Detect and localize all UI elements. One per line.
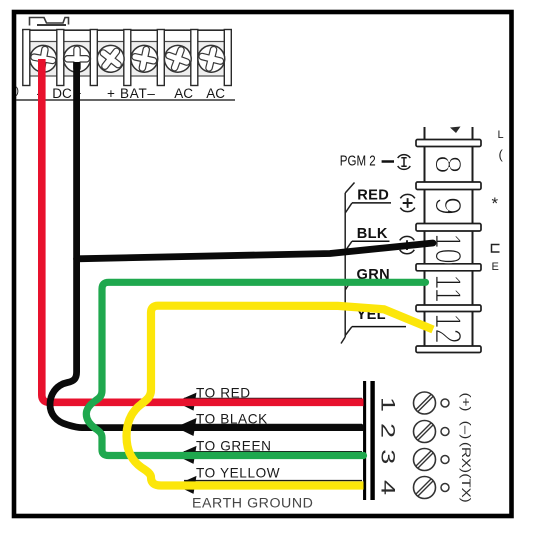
divider bars <box>416 140 481 353</box>
arrow TO BLACK <box>176 418 197 436</box>
svg-text:AC: AC <box>206 86 225 101</box>
svg-text:TO YELLOW: TO YELLOW <box>196 465 280 480</box>
svg-text:E: E <box>492 261 499 273</box>
svg-text:BLK: BLK <box>357 226 388 242</box>
underline TO RED <box>184 397 362 399</box>
right terminal strip <box>416 127 481 353</box>
bottom row labels <box>192 385 313 511</box>
arrowheads bottom rows (under wires) <box>176 393 197 494</box>
separator bars <box>23 30 232 86</box>
rotated pin numbers 1-4 <box>377 397 398 495</box>
arrow TO RED <box>176 393 197 411</box>
screw 2 <box>64 45 91 72</box>
wire hole 4 <box>441 484 449 492</box>
label PGM 2 <box>340 152 411 170</box>
wire red <box>42 59 364 402</box>
wire hole 1 <box>441 399 449 407</box>
svg-text:9: 9 <box>427 197 469 216</box>
svg-text:(TX): (TX) <box>459 473 472 502</box>
label BLK <box>352 226 414 254</box>
wire black tee to terminal 10 <box>77 243 433 259</box>
strip rails <box>424 127 426 350</box>
clamp plates <box>30 42 225 77</box>
svg-text:TO GREEN: TO GREEN <box>196 438 272 453</box>
underline TO YELLOW <box>184 480 362 482</box>
svg-text:(+): (+) <box>459 393 472 412</box>
glyph bracket <box>492 245 500 253</box>
keypad screws <box>414 392 450 499</box>
PGM2 screw icon <box>398 155 411 170</box>
svg-text:11: 11 <box>428 274 469 302</box>
terminal number 7 (partial fragment) <box>450 127 461 134</box>
leader diagonal GRN <box>345 281 351 290</box>
thin wire underlines bottom rows <box>184 398 362 480</box>
wire hole 2 <box>441 428 449 436</box>
svg-text:8: 8 <box>427 155 469 174</box>
svg-text:AC: AC <box>174 86 193 101</box>
wire green <box>86 282 425 455</box>
RED plus icon <box>400 194 415 211</box>
svg-text:TO RED: TO RED <box>196 385 251 400</box>
top rail <box>22 29 232 31</box>
screw terminal 2 <box>414 421 436 443</box>
svg-text:TO BLACK: TO BLACK <box>196 411 268 426</box>
svg-text:PGM 2: PGM 2 <box>340 152 376 169</box>
underline TO GREEN <box>184 451 362 453</box>
svg-text:(RX): (RX) <box>459 442 472 473</box>
svg-text:(: ( <box>499 147 504 162</box>
leader diagonal top <box>345 183 354 194</box>
connector tab above terminal block <box>30 18 69 26</box>
leader lines left of labels <box>341 183 355 344</box>
rule under labels <box>16 99 235 101</box>
label YEL <box>352 307 406 327</box>
arrow TO GREEN <box>176 446 197 464</box>
screw 5 <box>161 42 195 76</box>
underline TO BLACK <box>184 423 362 425</box>
terminal block labels <box>16 85 226 101</box>
svg-text:12: 12 <box>428 313 469 343</box>
screw terminal 4 <box>414 477 436 499</box>
svg-text:EARTH GROUND: EARTH GROUND <box>192 495 313 511</box>
screw terminal 1 <box>414 392 436 414</box>
svg-text:10: 10 <box>428 233 469 263</box>
leader diagonal RED <box>345 203 352 213</box>
screw terminal 3 <box>414 449 436 471</box>
svg-text:): ) <box>16 85 20 97</box>
svg-text:*: * <box>492 194 499 213</box>
svg-text:RED: RED <box>357 188 389 204</box>
wire black vertical + hop <box>50 62 364 428</box>
leader hook bottom <box>341 337 345 344</box>
label GRN <box>357 267 390 283</box>
wire hole 3 <box>441 456 449 464</box>
terminal block TB1 <box>22 30 232 86</box>
leader vertical <box>344 193 346 337</box>
leader diagonal BLK <box>345 241 352 251</box>
wire yellow <box>127 306 434 486</box>
screw 1 <box>28 43 59 74</box>
svg-text:(–): (–) <box>459 421 472 439</box>
svg-text:2: 2 <box>377 423 398 438</box>
bottom connector double line <box>363 381 366 500</box>
screw 6 <box>195 43 227 75</box>
svg-text:L: L <box>498 129 504 141</box>
svg-text:3: 3 <box>377 449 398 464</box>
strip side glyphs <box>492 129 504 273</box>
label RED <box>352 188 415 212</box>
svg-text:1: 1 <box>377 397 398 412</box>
svg-text:+ BAT–: + BAT– <box>107 86 156 101</box>
BLK screw icon <box>400 236 415 253</box>
leader diagonal YEL <box>345 327 352 336</box>
rotated signal labels <box>459 393 472 503</box>
svg-text:4: 4 <box>377 480 398 495</box>
arrow TO YELLOW <box>176 476 197 494</box>
screw 4 <box>128 43 160 75</box>
svg-text:DC: DC <box>52 86 72 101</box>
screw 3 <box>92 40 130 78</box>
